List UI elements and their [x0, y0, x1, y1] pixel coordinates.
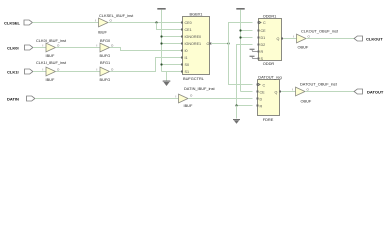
stub ODDR R with const marker [250, 49, 259, 52]
junction on CLKSEL net [155, 21, 157, 23]
buffer CLKOUT_OBUF_inst (OBUF) [293, 29, 339, 50]
junction IGNORE1 [160, 42, 162, 44]
svg-text:CE0: CE0 [185, 21, 192, 25]
wire CLKSEL_IBUF output to BUFGCTRL CE0 [108, 22, 182, 24]
wire CLK0I to IBUF [33, 47, 46, 49]
svg-text:IGNORE0: IGNORE0 [185, 35, 202, 39]
wire const1 to ODDR D1 [241, 37, 253, 39]
svg-text:CLK0I: CLK0I [7, 46, 19, 51]
svg-text:CLKSEL_IBUF_inst: CLKSEL_IBUF_inst [99, 13, 134, 18]
buffer CLK1I_IBUF_inst (IBUF) [36, 60, 67, 82]
port DATIN [7, 96, 35, 102]
wire BUFG1 to BUFGCTRL I1 [110, 58, 182, 72]
svg-text:D2: D2 [261, 43, 266, 47]
svg-text:DATOUT_reg: DATOUT_reg [258, 75, 281, 80]
junction ODDR D1 [239, 36, 241, 38]
junction S0 [160, 63, 162, 65]
buffer BFG0 (BUFG) [97, 38, 115, 58]
wire DATIN IBUF to FDRE D [188, 98, 253, 100]
svg-text:D1: D1 [261, 36, 266, 40]
svg-text:IBUF: IBUF [46, 53, 55, 58]
svg-text:D: D [260, 98, 263, 102]
port CLK1I [7, 69, 33, 75]
wire const to S1 [162, 71, 182, 73]
wire const to IGNORE1 [162, 43, 182, 45]
port CLKOUT [354, 36, 383, 42]
wire const to S0 [162, 64, 182, 66]
svg-text:CLK0I_IBUF_inst: CLK0I_IBUF_inst [36, 38, 67, 43]
svg-text:IBUF: IBUF [98, 30, 107, 35]
junction FDRE R [235, 104, 237, 106]
wire O net down to FDRE C [229, 44, 253, 85]
buffer CLKSEL_IBUF_inst (IBUF) [95, 13, 134, 35]
svg-text:IGNORE1: IGNORE1 [185, 42, 202, 46]
svg-text:R: R [260, 105, 263, 109]
buffer DATOUT_OBUF_inst (OBUF) [292, 82, 338, 104]
ground symbol left [163, 72, 171, 87]
svg-text:Q: Q [277, 37, 280, 41]
port CLK0I [7, 45, 33, 51]
wire CLK1I IBUF to BUFG1 [56, 71, 101, 73]
svg-text:C: C [263, 21, 266, 25]
wire branch down to CE1 [157, 23, 182, 30]
block BUFGCTRL BGBX1 [183, 12, 210, 82]
stub ODDR S with const marker [250, 56, 259, 59]
wire O net up to ODDR C [229, 23, 253, 44]
wire FDRE Q to OBUF [281, 91, 296, 93]
svg-text:BFG1: BFG1 [100, 60, 110, 65]
wire const to IGNORE0 [162, 36, 182, 38]
svg-text:CLKOUT_OBUF_inst: CLKOUT_OBUF_inst [301, 29, 339, 34]
svg-text:R: R [261, 50, 264, 54]
svg-text:CE: CE [260, 91, 266, 95]
svg-text:CLK1I_IBUF_inst: CLK1I_IBUF_inst [36, 60, 67, 65]
svg-text:CLKOUT: CLKOUT [366, 37, 383, 42]
svg-text:CE1: CE1 [185, 28, 192, 32]
pin markers ODDR [258, 22, 284, 60]
block ODDR ODDR1 [259, 14, 282, 67]
svg-text:FDRE: FDRE [263, 117, 274, 122]
wire CLK0I IBUF to BUFG0 [56, 47, 101, 49]
svg-text:IBUF: IBUF [46, 77, 55, 82]
svg-text:DATOUT_OBUF_inst: DATOUT_OBUF_inst [300, 82, 338, 87]
buffer CLK0I_IBUF_inst (IBUF) [36, 38, 67, 58]
wire CLKSEL to IBUF [33, 22, 99, 24]
wire BUFG0 to BUFGCTRL I0 [110, 48, 182, 51]
pin markers BUFGCTRL [181, 22, 212, 73]
svg-text:O: O [207, 42, 210, 46]
svg-text:DATOUT: DATOUT [367, 90, 384, 95]
power VCC bar (const net above BUFGCTRL) [157, 8, 165, 72]
svg-text:ODDR1: ODDR1 [263, 14, 277, 19]
wire const0 ODDR D2 down to ground [237, 45, 253, 106]
svg-text:BUFG: BUFG [100, 53, 111, 58]
power VCC bar above ODDR [236, 8, 244, 92]
svg-text:S1: S1 [185, 70, 190, 74]
svg-text:OBUF: OBUF [301, 99, 312, 104]
svg-text:S0: S0 [185, 63, 190, 67]
svg-text:Q: Q [275, 91, 278, 95]
svg-text:OBUF: OBUF [298, 45, 309, 50]
svg-text:BGBX1: BGBX1 [190, 12, 203, 17]
wire DATIN to IBUF [35, 98, 179, 100]
svg-text:DATIN_IBUF_inst: DATIN_IBUF_inst [184, 86, 216, 91]
junction O net [227, 42, 229, 44]
svg-text:BUFG: BUFG [100, 77, 111, 82]
wire BUFGCTRL O output [211, 43, 229, 45]
port CLKSEL [4, 20, 32, 26]
ground symbol right [233, 106, 240, 124]
svg-text:CLK1I: CLK1I [7, 70, 19, 75]
block FDRE DATOUT_reg [258, 75, 282, 123]
wire OBUF to DATOUT port [305, 91, 355, 93]
svg-text:I1: I1 [185, 56, 188, 60]
buffer BFG1 (BUFG) [97, 60, 115, 82]
junction IGNORE0 [160, 35, 162, 37]
buffer DATIN_IBUF_inst (IBUF) [176, 86, 216, 108]
pin markers FDRE [257, 84, 282, 107]
junction ODDR CE [239, 29, 241, 31]
svg-text:CLKSEL: CLKSEL [4, 21, 21, 26]
svg-text:I0: I0 [185, 49, 188, 53]
wire const1 to ODDR CE [241, 30, 253, 32]
port DATOUT [354, 89, 384, 95]
wire OBUF to CLKOUT port [306, 38, 355, 40]
wire const1 to FDRE CE [241, 91, 253, 93]
svg-text:DATIN: DATIN [7, 97, 19, 102]
wire ODDR Q to OBUF [283, 38, 297, 40]
svg-text:BUFGCTRL: BUFGCTRL [183, 76, 205, 81]
svg-text:BFG0: BFG0 [100, 38, 111, 43]
svg-text:C: C [263, 84, 266, 88]
wire const0 to FDRE R [237, 105, 253, 107]
svg-text:IBUF: IBUF [184, 103, 193, 108]
svg-text:ODDR: ODDR [263, 61, 275, 66]
wire CLK1I to IBUF [33, 71, 46, 73]
svg-text:CE: CE [261, 29, 267, 33]
